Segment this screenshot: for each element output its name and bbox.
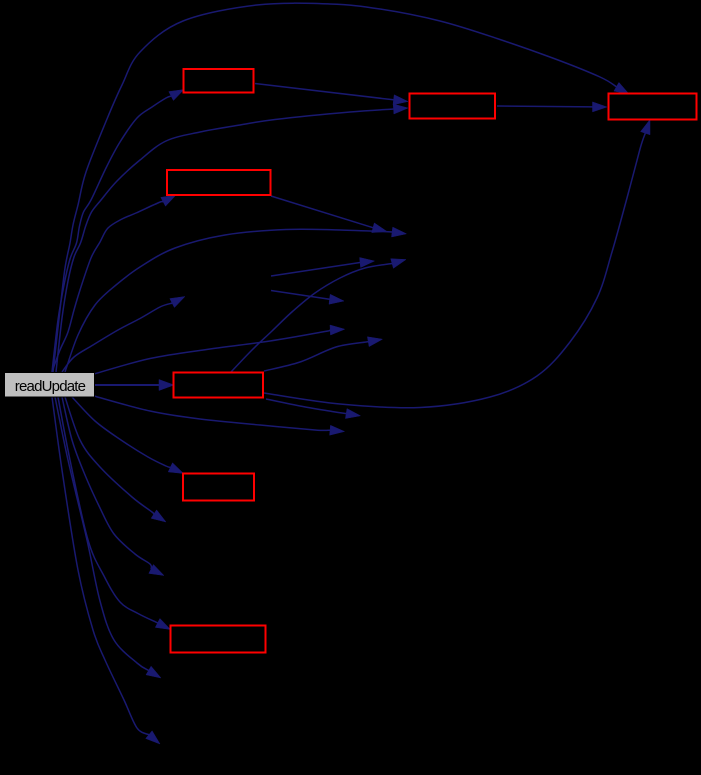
arrowhead readUpdate->box2	[393, 104, 408, 114]
arrowhead readUpdate->box1	[169, 90, 184, 101]
node box5 (red)	[174, 373, 264, 398]
wire box4->inv node b2	[271, 196, 373, 228]
node box2 (red)	[410, 94, 496, 119]
arrowhead box5->box3 bottom	[641, 120, 650, 135]
wire readUpdate->inv node b	[65, 229, 392, 372]
arrowhead box4->inv node b2	[372, 223, 387, 233]
arrowhead box2->box3	[593, 102, 608, 112]
arrowhead readUpdate->box7	[155, 619, 170, 630]
node box6 (red)	[183, 474, 254, 501]
arrowhead readUpdate->inv node a	[170, 297, 185, 308]
arrowhead readUpdate->box3 top arc	[614, 82, 629, 94]
svg-text:readUpdate: readUpdate	[15, 378, 86, 395]
wire inv node->x2	[271, 291, 330, 300]
wire readUpdate->box6	[72, 397, 170, 467]
wire box5->inv node i	[231, 264, 392, 373]
wire box5->inv node k	[266, 399, 346, 414]
node box7 (red)	[171, 626, 266, 653]
arrowhead box5->inv node j	[367, 337, 382, 347]
arrowhead readUpdate->inv node c	[330, 325, 345, 335]
arrowhead readUpdate->inv node b	[392, 227, 407, 237]
wire readUpdate->box2	[56, 109, 394, 372]
wire readUpdate->inv node d	[94, 396, 330, 430]
wire box1->box2	[255, 84, 394, 100]
wire readUpdate->box7	[58, 397, 158, 623]
arrowhead readUpdate->inv node g	[146, 666, 161, 678]
arrowhead readUpdate->inv node d	[330, 425, 345, 435]
arrowhead box5->inv node i	[391, 259, 406, 269]
arrowhead inv node->x2	[329, 294, 344, 304]
wire readUpdate->inv node f	[62, 397, 152, 569]
wire readUpdate->box4	[52, 201, 163, 372]
arrowhead readUpdate->inv node f	[149, 565, 164, 576]
wire readUpdate->inv node e	[65, 397, 154, 514]
arrowhead readUpdate->box5	[159, 380, 174, 391]
wire readUpdate->inv node c	[94, 330, 331, 374]
arrowhead readUpdate->inv node e	[151, 510, 166, 522]
arrowhead inv node->x1	[360, 258, 375, 268]
node readUpdate (current function, grey filled)	[5, 373, 95, 398]
node box1 (red)	[184, 69, 254, 93]
arrowhead box1->box2	[393, 95, 408, 105]
wire readUpdate->inv node g	[55, 397, 149, 671]
wire box2->box3	[497, 105, 593, 108]
arrowhead readUpdate->box4	[161, 195, 176, 206]
wire box5->box3 bottom	[264, 133, 645, 408]
wire readUpdate->inv node a	[62, 303, 172, 372]
wire readUpdate->box3 top arc	[53, 3, 616, 372]
arrowhead readUpdate->inv node h	[146, 731, 160, 744]
node box3 (red)	[609, 94, 697, 120]
arrowhead readUpdate->box6	[168, 463, 183, 474]
wire readUpdate->box1	[52, 96, 171, 372]
wire readUpdate->inv node h	[52, 397, 149, 735]
wire box5->inv node j	[264, 342, 369, 371]
arrowhead box5->inv node k	[345, 409, 360, 419]
wire inv node->x1	[271, 263, 360, 277]
wire readUpdate->box5	[94, 384, 159, 386]
node box4 (red)	[167, 170, 271, 195]
